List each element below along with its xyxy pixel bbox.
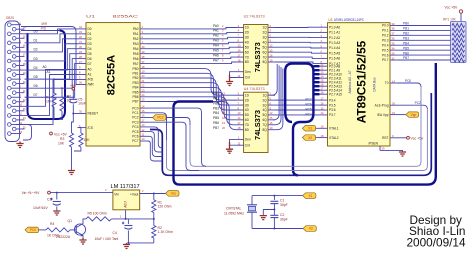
svg-text:C4: C4 [113,231,117,235]
svg-text:PA1: PA1 [213,29,219,33]
svg-text:5D: 5D [245,45,250,49]
svg-text:P1.0 A0: P1.0 A0 [329,25,340,29]
svg-text:19: 19 [222,121,225,125]
svg-text:PA6: PA6 [133,57,139,61]
svg-text:PC5: PC5 [306,108,312,112]
svg-text:PA3: PA3 [133,42,139,46]
wire PC0 to rail [148,108,207,166]
wires A8 bus entries from U4 to bus [271,64,283,130]
U1 right pins PA0-7 PB0-7 PC0-7 [132,25,147,143]
svg-text:2000/09/14: 2000/09/14 [407,235,466,249]
svg-text:10uF / 16V Tant: 10uF / 16V Tant [95,237,119,241]
resistor R2 1.1K Ohm [152,219,173,243]
svg-text:2D: 2D [245,98,250,102]
capacitor C3 10uF/16V [33,193,61,211]
wire R4 to base [70,229,76,231]
svg-text:25: 25 [23,125,26,129]
svg-text:18: 18 [23,62,26,66]
svg-text:D5: D5 [88,52,92,56]
svg-text:Oen: Oen [245,70,251,74]
svg-text:1D: 1D [245,26,250,30]
bus A rail (medium) [150,93,431,175]
svg-text:13: 13 [19,130,22,134]
crystal Y1 [247,196,257,229]
port PC0 at left [25,227,39,233]
svg-text:P2.7 A15: P2.7 A15 [329,92,342,96]
resistor R4 1K Ohm [46,222,70,237]
svg-text:PA0: PA0 [133,27,139,31]
svg-text:P0.4: P0.4 [382,43,389,47]
wire rail PC2 net (thin) [190,87,421,166]
svg-text:PB4: PB4 [213,111,219,115]
svg-text:PA4: PA4 [213,44,219,48]
svg-text:RST: RST [382,136,388,140]
svg-text:D7: D7 [34,93,38,97]
svg-text:3D: 3D [245,36,250,40]
svg-text:PB1: PB1 [403,27,409,31]
svg-text:PB0: PB0 [132,67,138,71]
ground below R3 [68,171,75,175]
wire PC7 to bus A [148,141,163,161]
svg-text:10uF/16V: 10uF/16V [33,206,48,210]
IC U3 AT89C51/52/55 body [328,23,391,146]
wire Vout [140,189,166,195]
svg-text:PA6: PA6 [213,53,219,57]
svg-text:AT89C51/52/55: AT89C51/52/55 [355,40,369,123]
svg-text:P3.4: P3.4 [329,98,336,102]
svg-text:17: 17 [23,53,26,57]
svg-text:20: 20 [23,80,26,84]
svg-text:D6: D6 [88,57,92,61]
svg-text:PB7: PB7 [213,126,219,130]
regulator label LM 117/317 [111,184,140,190]
svg-text:PA7: PA7 [213,58,219,62]
svg-text:P0.7: P0.7 [382,58,389,62]
net label D4 [34,66,38,70]
svg-text:PB3: PB3 [403,36,409,40]
net label PC2 [415,101,421,105]
svg-text:P0.6: P0.6 [382,53,389,57]
port X2 at crystal [303,226,316,232]
svg-text:Vcc +5V: Vcc +5V [54,132,67,136]
wire ALE to vertical rail [398,105,428,109]
svg-text:PC7: PC7 [306,98,312,102]
svg-text:Vcc +5V: Vcc +5V [411,136,424,140]
svg-text:PA3: PA3 [213,39,219,43]
svg-text:PB4: PB4 [403,41,409,45]
svg-text:D7: D7 [88,62,92,66]
wire A0 from DB25 to 82C55A [21,70,78,107]
svg-text:P1.4 A4: P1.4 A4 [329,46,340,50]
resistor R3 10K [58,114,74,171]
wire RESET node [72,113,77,115]
net label /RD [41,27,47,31]
svg-text:3: 3 [105,188,107,192]
svg-text:PB5: PB5 [403,46,409,50]
svg-text:82C55A: 82C55A [106,55,118,95]
wire PC4 to bus A [148,127,163,148]
svg-text:P1.5 A5: P1.5 A5 [329,51,340,55]
svg-text:D6: D6 [34,84,38,88]
svg-text:D4: D4 [88,47,92,51]
IC U3 left pins [320,24,343,140]
svg-text:ATMEL AT89C51-24PC: ATMEL AT89C51-24PC [334,18,365,22]
svg-text:P0.2: P0.2 [382,34,389,38]
wire D3 from DB25 pin 5 to 82C55A [25,44,78,61]
capacitor C2 30pF [270,210,287,229]
svg-text:5Q: 5Q [263,113,268,117]
capacitor C1 30pF [270,196,287,210]
wires PC7-PC4 from U4 outputs to U3 [275,100,320,115]
U1 left pins D0-D7 A0 A1 /RD /WR RESET /CS [78,25,99,130]
svg-text:PB6: PB6 [403,51,409,55]
ground at U2 OE [226,72,237,86]
net labels PB0-PB7 at U4 inputs [213,92,225,131]
svg-text:PB5: PB5 [132,90,138,94]
svg-text:PB5: PB5 [213,116,219,120]
net label D0 [34,30,38,34]
svg-text:P3.6: P3.6 [329,108,336,112]
wire Vin rail [50,188,113,194]
svg-text:15: 15 [23,35,26,39]
svg-text:PB0: PB0 [213,92,219,96]
svg-text:/EA Vpp: /EA Vpp [377,113,389,117]
IC U2 74LS373 body [244,25,268,85]
svg-text:P1.2 A2: P1.2 A2 [329,36,340,40]
svg-text:PB1: PB1 [132,72,138,76]
wire DB25 pin 13 down [16,125,32,141]
svg-text:PA2: PA2 [213,34,219,38]
wires AD0-AD7 from U2 outputs to U3 P1 [275,27,320,63]
svg-text:X2: X2 [308,136,312,140]
svg-text:3Q: 3Q [263,103,268,107]
svg-text:U4 74LS373: U4 74LS373 [244,87,265,91]
svg-text:6D: 6D [245,118,250,122]
resistor R6 10K on /CS [74,128,90,151]
svg-text:1: 1 [120,214,122,218]
svg-text:PA2: PA2 [133,37,139,41]
svg-text:4D: 4D [245,108,250,112]
svg-text:PC4: PC4 [306,113,312,117]
svg-text:1Q: 1Q [263,26,268,30]
wire PC5 to bus A [148,132,163,152]
svg-text:U2 74LS373: U2 74LS373 [244,15,265,19]
svg-text:PB7: PB7 [403,56,409,60]
svg-text:4Q: 4Q [263,40,268,44]
svg-text:X2: X2 [309,227,313,231]
wires PB0-PB7 from U1 to U4 [148,69,237,130]
svg-text:D1: D1 [88,32,92,36]
svg-text:D2: D2 [88,37,92,41]
svg-text:/CS: /CS [88,126,93,130]
wire D5 from DB25 pin 7 to 82C55A [25,54,78,79]
svg-text:21: 21 [23,89,26,93]
wire to R4 [39,229,47,231]
svg-text:X1: X1 [308,194,312,198]
svg-text:23: 23 [23,107,26,111]
svg-text:D5: D5 [34,75,38,79]
svg-text:4D: 4D [245,40,250,44]
svg-text:2: 2 [222,24,224,28]
svg-text:A1: A1 [88,73,92,77]
svg-text:Cnt: Cnt [245,143,250,147]
svg-text:2N2222A: 2N2222A [56,235,71,239]
svg-text:1D: 1D [245,93,250,97]
wire D0 from DB25 pin 2 to 82C55A [21,29,78,34]
svg-text:Q1: Q1 [68,219,73,223]
svg-text:P1.6 A6: P1.6 A6 [329,57,340,61]
wire collector to R5 [83,219,86,222]
net label D5 [34,75,38,79]
wire D1 from DB25 pin 3 to 82C55A [25,34,78,43]
svg-text:Vpp: Vpp [411,113,417,117]
wire PC6 to bus A [148,136,163,156]
net label A1 [47,70,51,74]
svg-text:PC2: PC2 [132,116,138,120]
resistor pack RP1 [451,22,467,63]
svg-text:RP1 10K: RP1 10K [443,17,457,21]
svg-text:PA1: PA1 [133,32,139,36]
svg-text:ALE-Prog: ALE-Prog [375,103,389,107]
svg-text:PB0: PB0 [403,22,409,26]
svg-text:Cnt: Cnt [245,76,250,80]
svg-text:A1: A1 [47,70,51,74]
svg-text:74LS373: 74LS373 [253,110,262,140]
svg-text:P0.5: P0.5 [382,48,389,52]
svg-text:74LS373: 74LS373 [253,42,262,72]
svg-text:R5 100 Ohm: R5 100 Ohm [88,211,107,215]
svg-text:P1.1 A1: P1.1 A1 [329,31,340,35]
svg-text:D2: D2 [34,48,38,52]
power +5V terminal near /CS [50,132,68,136]
svg-text:11.0592 MHz: 11.0592 MHz [224,211,244,215]
wire D4 from DB25 pin 6 to 82C55A [21,49,78,70]
svg-text:PB6: PB6 [213,121,219,125]
svg-text:30pF: 30pF [280,217,288,221]
svg-text:120 Ohm: 120 Ohm [158,205,172,209]
svg-text:PC0: PC0 [30,228,36,232]
wire /PSEN to ground [380,150,403,152]
svg-text:D4: D4 [34,66,38,70]
net label D2 [34,48,38,52]
svg-text:1M: 1M [46,100,51,104]
svg-text:1.1K Ohm: 1.1K Ohm [158,230,173,234]
connector J1 DB25 label [6,16,14,20]
svg-text:7D: 7D [245,55,250,59]
svg-text:PB2: PB2 [213,101,219,105]
wire XTAL bottom [252,228,303,230]
wire D6 from DB25 pin 8 to 82C55A [21,59,78,89]
svg-text:PB2: PB2 [132,76,138,80]
capacitor C5 10uF [67,96,86,114]
resistor R2 pull on U bus [60,87,71,119]
net label D6 [34,84,38,88]
wire D7 from DB25 pin 9 to 82C55A [25,64,78,98]
svg-text:D0: D0 [88,27,92,31]
power +5V terminal above C5 [70,84,77,99]
IC U3 right pins [375,22,398,140]
U3 bottom pin /PSEN [368,142,385,151]
crystal Y1 labels [224,206,244,215]
svg-text:XTAL1: XTAL1 [329,127,339,131]
svg-text:PC2: PC2 [415,101,421,105]
svg-text:22: 22 [23,98,26,102]
svg-text:C3: C3 [47,198,51,202]
svg-text:/RD: /RD [88,78,94,82]
svg-text:PB7: PB7 [132,100,138,104]
port PC2 inline [148,115,191,125]
wire XTAL top [252,195,303,197]
power Vcc +5V above RP1 [445,6,463,22]
svg-text:+Vout: +Vout [130,192,138,196]
svg-text:7Q: 7Q [263,55,268,59]
svg-text:DB25: DB25 [6,16,14,20]
svg-text:PC0: PC0 [405,79,411,83]
svg-text:P0.3: P0.3 [382,38,389,42]
svg-text:8Q: 8Q [263,60,268,64]
svg-text:P3.7: P3.7 [329,113,336,117]
ground at /PSEN [399,152,406,156]
svg-text:PA5: PA5 [213,48,219,52]
svg-text:5Q: 5Q [263,45,268,49]
svg-text:LM 117/317: LM 117/317 [111,184,140,190]
svg-text:Vin +5~+9V: Vin +5~+9V [22,191,40,195]
svg-text:T0: T0 [385,81,389,85]
svg-text:4Q: 4Q [263,108,268,112]
net label D1 [34,39,38,43]
IC U3 AT89C51 top label [328,18,364,22]
wire crystal ground tap [263,209,275,216]
ground at Q1 emitter [79,238,86,244]
net label D3 [34,57,38,61]
resistor R5 100 Ohm [86,211,111,221]
port X1 at crystal [303,193,316,199]
svg-text:/RD: /RD [41,27,47,31]
IC U4 74LS373 body [244,92,268,152]
wire /RD net [21,30,60,32]
svg-text:7D: 7D [245,123,250,127]
wire PC3 to rail [148,122,200,170]
net label PC0 [405,79,411,83]
svg-text:C2: C2 [280,213,284,217]
svg-text:7Q: 7Q [263,123,268,127]
svg-text:PB1: PB1 [213,96,219,100]
IC U4 74LS373 designator [244,87,265,91]
svg-text:PC6: PC6 [306,103,312,107]
capacitor C4 10uF/16V Tant [95,219,133,243]
svg-text:10K: 10K [58,142,65,146]
svg-text:8D: 8D [245,60,250,64]
svg-text:A0: A0 [43,65,47,69]
resistor R1 pull on U bus [46,78,56,119]
svg-text:U3: U3 [328,18,332,22]
ground below DB25 [16,142,23,148]
power Vcc +5V at RST [398,136,424,140]
net label /WR [41,22,48,26]
svg-text:2D: 2D [245,31,250,35]
svg-text:3D: 3D [245,103,250,107]
transistor Q1 2N2222A [56,219,86,239]
svg-text:R3: R3 [60,137,64,141]
IC U4 74LS373 pins [237,92,276,148]
net labels PB0-PB7 [403,22,409,61]
svg-text:24: 24 [23,116,26,120]
svg-text:P1.3 A3: P1.3 A3 [329,41,340,45]
ground below C4 [123,243,130,249]
svg-text:PB3: PB3 [213,106,219,110]
svg-text:10uF: 10uF [78,101,86,105]
svg-text:+5V: +5V [70,84,77,88]
svg-text:Vcc: Vcc [171,192,177,196]
svg-text:Vcc +5V: Vcc +5V [445,6,458,10]
net labels PC4-PC7 at U3 [306,98,312,117]
svg-text:8Q: 8Q [263,128,268,132]
svg-text:D3: D3 [34,57,38,61]
RP1 label [443,17,457,21]
bus DB25 ground U bus [28,31,66,121]
svg-text:3Q: 3Q [263,36,268,40]
IC U2 74LS373 designator [244,15,265,19]
svg-text:19: 19 [23,71,26,75]
wire T0 to vertical rail [398,83,422,87]
svg-text:PA7: PA7 [133,62,139,66]
power Vin +5~+9V terminal [22,191,51,195]
svg-text:PB3: PB3 [132,81,138,85]
svg-text:PC3: PC3 [132,120,138,124]
svg-text:/PSEN: /PSEN [368,142,378,146]
svg-text:PC6: PC6 [132,135,138,139]
port X1 to XTAL1 [302,126,319,132]
title Design by Shiao I-Lin 2000/09/14 [407,213,466,249]
svg-text:30pF: 30pF [280,203,288,207]
regulator U5 LM117/317 body [113,190,140,210]
port Vcc output [166,191,180,197]
svg-text:/WR: /WR [88,83,95,87]
wires P0 bus to RP1 [398,26,451,61]
svg-text:Oen: Oen [245,138,251,142]
svg-text:RESET: RESET [88,112,99,116]
svg-text:P0.0: P0.0 [382,24,389,28]
svg-text:DATA Bus: DATA Bus [373,77,377,92]
svg-text:D3: D3 [88,42,92,46]
ground at U4 OE [226,139,237,153]
svg-text:10K: 10K [84,138,91,142]
IC U1 82C55A body [86,23,140,146]
svg-text:PC2: PC2 [157,116,163,120]
svg-text:P0.1: P0.1 [382,29,389,33]
svg-text:PB4: PB4 [132,86,138,90]
svg-text:16: 16 [23,44,26,48]
svg-text:PC5: PC5 [132,130,138,134]
svg-text:C1: C1 [280,199,284,203]
wires PA0-PA7 from U1 to U2 [148,28,237,64]
connector J1 DB25 [5,21,26,142]
wire PC1 to rail [148,113,167,140]
wire rail PC1 net (thin) [167,109,428,171]
svg-text:PC4: PC4 [132,125,138,129]
svg-text:/WR: /WR [41,22,48,26]
svg-text:PA5: PA5 [133,52,139,56]
svg-text:2: 2 [142,189,144,193]
wire D2 from DB25 pin 4 to 82C55A [21,39,78,52]
svg-text:PC7: PC7 [132,139,138,143]
svg-text:6Q: 6Q [263,50,268,54]
ground at crystal [260,216,267,220]
svg-text:20: 20 [222,126,225,130]
svg-text:29: 29 [382,147,385,151]
svg-text:1Q: 1Q [263,93,268,97]
svg-text:PB2: PB2 [403,32,409,36]
